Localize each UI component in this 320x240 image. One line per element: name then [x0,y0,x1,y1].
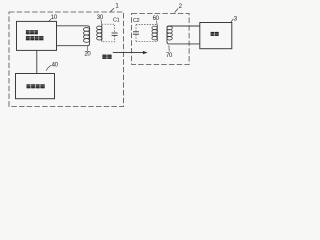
text 送電 (blob glyphs) [102,55,111,59]
text 電源装置 (blob glyphs) [26,36,43,40]
dashed enclosure box 2 (receiver unit) [132,13,190,64]
wire loop from power box to primary coil L20 [57,26,90,46]
svg-text:C2: C2 [133,18,140,24]
text 高周波 (blob glyphs) [26,30,38,34]
text 制御装置 (blob glyphs) [27,84,45,88]
svg-text:20: 20 [84,52,91,58]
coil L70 with wires to load [167,26,200,44]
capacitor C1 plates [112,33,118,35]
label 40 leader [46,65,51,71]
control box U40 [16,74,55,99]
label 2 leader tick [175,8,179,12]
label 20 leader [86,46,88,51]
label 3 leader tick [231,19,234,22]
svg-text:60: 60 [153,16,160,22]
load box 3 [200,23,232,49]
dashed wires C2 to coil60 [136,25,157,42]
power-flow arrow [113,52,144,54]
svg-text:10: 10 [51,15,58,21]
svg-text:30: 30 [97,15,104,21]
dashed enclosure box 1 (transmitter unit) [9,12,124,107]
label 1 leader tick [110,8,114,12]
label 70 leader [168,45,170,51]
power supply box U10 [17,21,57,50]
svg-text:C1: C1 [113,18,120,24]
coil L20 loops [83,28,89,43]
capacitor C2 plates [133,32,139,34]
label 60 leader [156,21,159,25]
label 10 leader tick [48,19,51,22]
label 30 leader [100,19,103,24]
wire power box to control box [36,50,38,73]
coil L60 [156,25,158,42]
text 負荷 (blob glyphs) [211,32,219,36]
svg-text:70: 70 [166,53,173,59]
dashed wires coil30 to C1 [102,24,115,42]
svg-text:40: 40 [52,62,59,68]
coil L30 (resonant secondary in box 1) [101,24,103,42]
